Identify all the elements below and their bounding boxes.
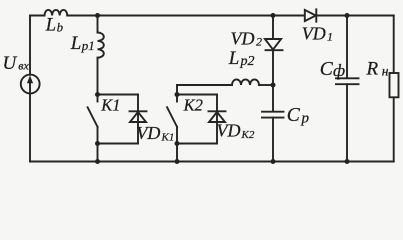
wire VD2 branch upper: [272, 16, 274, 40]
inductor Lp1: [98, 33, 104, 58]
svg-text:C: C: [287, 105, 301, 126]
svg-text:VD: VD: [302, 24, 326, 44]
node top VD2: [271, 13, 276, 18]
wire Lp2 left segment: [177, 84, 232, 86]
wire left branch upper: [29, 16, 31, 75]
diode VD1: [305, 9, 317, 21]
wire Cf branch lower: [346, 84, 348, 161]
svg-text:K1: K1: [161, 131, 175, 143]
node top Lp1: [95, 13, 100, 18]
label VDK1: [136, 123, 174, 143]
svg-text:C: C: [320, 59, 334, 80]
wire K2 diode branch upper: [216, 95, 218, 112]
wire K1 to bus: [97, 144, 99, 162]
label Lp2: [228, 48, 255, 69]
wire Lp2 corner to K2: [176, 85, 178, 95]
node top Cf: [345, 13, 350, 18]
svg-text:p1: p1: [81, 38, 95, 53]
wire K1 loop bottom: [98, 143, 139, 145]
svg-text:1: 1: [327, 30, 333, 44]
svg-text:VD: VD: [231, 29, 255, 49]
svg-text:K1: K1: [100, 96, 120, 115]
wire bottom bus: [30, 161, 394, 163]
wire Lp1 branch upper: [97, 16, 99, 33]
svg-text:VD: VD: [217, 121, 241, 141]
label Lb: [45, 16, 63, 36]
source U circle: [21, 75, 40, 94]
node bus Cf: [345, 159, 350, 164]
wire right branch lower: [393, 97, 395, 161]
node K2 top: [175, 92, 180, 97]
switch K1: [88, 95, 98, 144]
switch K2: [167, 95, 177, 144]
capacitor Cf: [336, 78, 359, 84]
capacitor Cp: [262, 112, 284, 118]
svg-text:вх: вх: [18, 59, 29, 73]
wire Lp1 branch lower: [97, 58, 99, 95]
svg-text:K2: K2: [241, 129, 255, 141]
svg-text:н: н: [382, 64, 389, 79]
svg-text:2: 2: [256, 35, 262, 49]
label Cp: [287, 105, 310, 127]
wire K1 loop top: [98, 94, 139, 96]
inductor Lb: [45, 10, 68, 16]
inductor Lp2: [232, 79, 259, 85]
node Lp2 right: [271, 83, 276, 88]
label VD2: [231, 29, 263, 49]
wire K2 loop bottom: [177, 143, 217, 145]
diode VD2: [265, 39, 283, 50]
wire top bus left segment: [30, 15, 45, 17]
wire K2 to bus: [176, 144, 178, 162]
wire Cf branch upper: [346, 16, 348, 78]
svg-text:VD: VD: [136, 123, 160, 143]
label VD1: [302, 24, 333, 44]
svg-text:p2: p2: [240, 54, 255, 69]
svg-text:K2: K2: [183, 96, 203, 115]
node bus K1: [95, 159, 100, 164]
wire K1 diode branch upper: [137, 95, 139, 112]
svg-text:L: L: [228, 48, 240, 69]
wire VD2 branch lower: [272, 50, 274, 85]
wire Cp branch upper: [272, 85, 274, 111]
svg-text:ф: ф: [333, 61, 345, 80]
label VDK2: [217, 121, 255, 141]
source arrow: [27, 75, 33, 92]
wire top bus right: [316, 15, 393, 17]
wire right branch upper: [393, 16, 395, 74]
diode VDK1: [130, 111, 147, 122]
label Rn: [366, 59, 389, 80]
node bus Cp: [271, 159, 276, 164]
label Cf: [320, 59, 345, 80]
wire left branch lower: [29, 93, 31, 161]
node K1 top: [95, 92, 100, 97]
svg-text:L: L: [45, 16, 56, 36]
wire top bus middle: [67, 15, 304, 17]
wire Lp2 right segment: [259, 84, 273, 86]
wire K1 diode branch lower: [137, 112, 139, 144]
node K1 bottom: [95, 141, 100, 146]
label Lp1: [70, 33, 95, 54]
svg-text:p: p: [301, 111, 310, 127]
svg-text:R: R: [366, 59, 379, 80]
wire K2 loop top: [177, 94, 217, 96]
resistor Rn box: [390, 73, 399, 97]
node K2 bottom: [175, 141, 180, 146]
wire K2 diode branch lower: [216, 112, 218, 144]
svg-text:L: L: [70, 33, 82, 54]
node bus K2: [175, 159, 180, 164]
diode VDK2: [209, 111, 226, 122]
label Uvx: [3, 53, 30, 74]
svg-text:U: U: [3, 53, 18, 74]
svg-text:b: b: [57, 20, 63, 34]
wire Cp branch lower: [272, 118, 274, 162]
